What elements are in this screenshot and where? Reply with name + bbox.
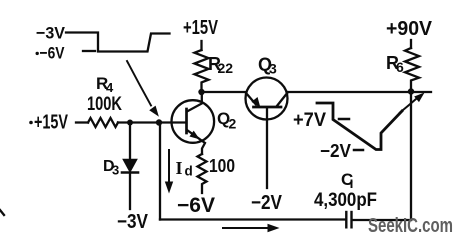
bottom rail left segment (160, 218, 345, 220)
svg-text:−3V: −3V (36, 24, 66, 43)
svg-text:3: 3 (112, 163, 119, 178)
svg-text:+7V: +7V (293, 110, 326, 131)
transistor Q2 (172, 100, 215, 143)
arrow from waveform to node B (400, 99, 416, 113)
wire node A down to bottom rail (159, 123, 161, 220)
node B (output node) (408, 88, 414, 94)
rail Q3 collector to node B (288, 91, 432, 93)
svg-text:+15V: +15V (34, 112, 68, 134)
svg-text:SeekIC.com: SeekIC.com (368, 215, 453, 237)
svg-text:2: 2 (229, 116, 237, 132)
node A (base node) (156, 119, 162, 125)
resistor R4 (88, 118, 118, 127)
transistor Q3 (246, 78, 288, 120)
svg-text:4,300pF: 4,300pF (314, 190, 377, 211)
svg-text:100: 100 (209, 156, 235, 176)
-2V level dash (354, 149, 363, 152)
speck before -6V (36, 52, 39, 55)
svg-text:6: 6 (396, 59, 404, 75)
resistor R6 (405, 48, 419, 89)
+7V level dash (339, 118, 349, 121)
node D3 junction (127, 120, 133, 126)
bottom direction arrow (223, 227, 269, 229)
output sawtooth waveform +7V/-2V (317, 103, 402, 150)
wire +15V to R4 (76, 121, 88, 123)
rail junction to Q3 emitter (202, 91, 247, 93)
svg-text:+15V: +15V (183, 17, 218, 39)
svg-text:−6V: −6V (177, 194, 215, 217)
wire +90V to R6 (410, 40, 412, 48)
speck left of +15V (29, 121, 33, 125)
svg-text:100K: 100K (87, 94, 122, 115)
Q3 emitter with arrow (246, 93, 256, 105)
Q3 collector (277, 92, 288, 106)
Q2 collector (187, 92, 202, 112)
wire R4 to base of Q2 (118, 121, 186, 123)
svg-text:I: I (176, 158, 183, 178)
edge tick (0, 210, 4, 215)
input waveform -3V/-6V pulse (66, 33, 170, 52)
-6V level dash (83, 50, 95, 52)
Q3 base lead to -2V (266, 108, 268, 188)
wire +15V top to R22 (200, 41, 202, 50)
svg-text:d: d (185, 164, 193, 179)
svg-text:22: 22 (218, 60, 234, 76)
svg-text:−2V: −2V (251, 192, 283, 214)
wire right rail up to node B (410, 92, 412, 220)
svg-text:−3V: −3V (117, 211, 149, 233)
Id current arrow (168, 150, 170, 183)
Q2 emitter with arrow (187, 130, 205, 154)
svg-text:3: 3 (269, 61, 277, 77)
svg-text:−6V: −6V (40, 44, 66, 63)
bottom rail right segment (353, 219, 411, 221)
arrow from waveform to node A (127, 61, 151, 106)
svg-text:−2V: −2V (320, 141, 351, 161)
label C1 subscript bar (351, 180, 353, 189)
diode D3 (129, 123, 131, 160)
node R22/Q2 collector junction (198, 89, 204, 95)
capacitor C1 (345, 212, 347, 227)
svg-text:+90V: +90V (386, 18, 433, 40)
resistor 100 (emitter) (198, 154, 207, 193)
svg-text:4: 4 (106, 80, 114, 95)
resistor R22 (195, 50, 209, 89)
